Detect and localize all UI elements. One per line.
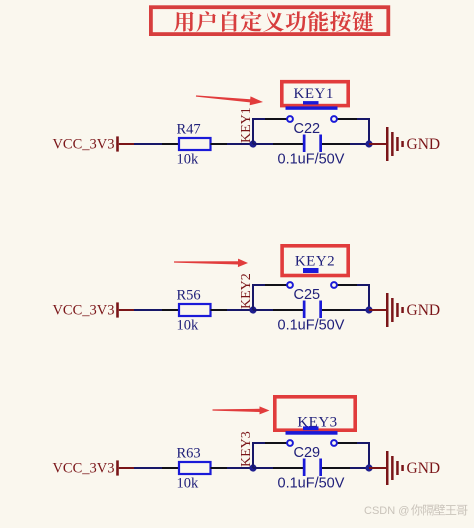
svg-text:GND: GND — [407, 136, 441, 153]
title annotation box — [151, 7, 388, 34]
switch KEY3 pin 1 contact circle — [287, 440, 293, 446]
resistor R47 body — [179, 138, 211, 150]
switch KEY1 pin 2 lead — [337, 118, 358, 120]
switch KEY1 actuator bridge bar — [286, 106, 338, 109]
switch KEY1 pin 1 contact circle — [287, 116, 293, 122]
ground symbol wire stub — [369, 309, 387, 311]
ground symbol wire stub — [369, 143, 387, 145]
capacitor C29 left plate — [303, 459, 306, 477]
switch KEY3 pin 2 contact circle — [331, 440, 337, 446]
svg-text:C29: C29 — [294, 445, 321, 461]
switch KEY2 pin 1 contact circle — [287, 282, 293, 288]
svg-text:VCC_3V3: VCC_3V3 — [52, 136, 114, 152]
annotation arrow 1 — [196, 95, 263, 105]
switch KEY3 plunger cap bar — [303, 426, 319, 430]
resistor R47 pin 1 — [162, 143, 179, 145]
svg-text:KEY1: KEY1 — [239, 107, 254, 143]
svg-text:0.1uF/50V: 0.1uF/50V — [278, 476, 345, 492]
junction dot right node — [365, 306, 372, 313]
svg-text:VCC_3V3: VCC_3V3 — [52, 460, 114, 476]
VCC power stub — [119, 467, 135, 469]
capacitor C25 pin 1 lead — [273, 309, 303, 311]
wire node to capacitor C22 — [253, 143, 274, 145]
svg-text:KEY2: KEY2 — [295, 254, 335, 270]
VCC_3V3 terminal bar — [116, 460, 119, 475]
svg-text:R56: R56 — [177, 288, 201, 304]
switch KEY2 plunger cap bar — [303, 268, 319, 273]
svg-text:0.1uF/50V: 0.1uF/50V — [278, 318, 345, 334]
junction dot left node KEY2 — [249, 306, 256, 313]
svg-text:KEY3: KEY3 — [239, 431, 254, 467]
annotation red box around KEY3 — [275, 397, 355, 430]
svg-text:KEY2: KEY2 — [239, 273, 254, 309]
resistor R63 pin 1 — [162, 467, 179, 469]
wire branch up-left to switch pin 1 — [253, 119, 266, 144]
capacitor C29 pin 1 lead — [273, 467, 303, 469]
wire branch up-left to switch pin 1 — [253, 285, 266, 310]
wire branch up-right from switch pin 2 — [357, 285, 369, 310]
switch KEY1 pin 1 lead — [265, 118, 287, 120]
resistor R63 body — [179, 462, 211, 474]
capacitor C22 pin 1 lead — [273, 143, 303, 145]
VCC_3V3 terminal bar — [116, 302, 119, 317]
resistor R47 pin 2 — [211, 143, 228, 145]
wire VCC to resistor R63 — [134, 467, 163, 469]
junction dot left node KEY3 — [249, 464, 256, 471]
switch KEY3 pin 1 lead — [265, 442, 287, 444]
junction dot right node — [365, 464, 372, 471]
VCC power stub — [119, 143, 135, 145]
wire branch up-left to switch pin 1 — [253, 443, 266, 468]
VCC power stub — [119, 309, 135, 311]
svg-text:R47: R47 — [177, 122, 201, 138]
wire resistor to node KEY2 — [227, 309, 254, 311]
annotation arrow 2 — [174, 259, 248, 268]
junction dot left node KEY1 — [249, 140, 256, 147]
wire node to capacitor C25 — [253, 309, 274, 311]
capacitor C22 pin 2 lead — [322, 143, 351, 145]
svg-text:10k: 10k — [177, 318, 200, 334]
wire VCC to resistor R56 — [134, 309, 163, 311]
wire resistor to node KEY1 — [227, 143, 254, 145]
capacitor C29 right plate — [319, 459, 322, 477]
switch KEY2 pin 2 contact circle — [331, 282, 337, 288]
svg-text:GND: GND — [407, 302, 441, 319]
svg-text:GND: GND — [407, 460, 441, 477]
wire branch up-right from switch pin 2 — [357, 119, 369, 144]
svg-text:0.1uF/50V: 0.1uF/50V — [278, 152, 345, 168]
svg-text:10k: 10k — [177, 152, 200, 168]
junction dot right node — [365, 140, 372, 147]
ground symbol wire stub — [369, 467, 387, 469]
switch KEY2 actuator bridge bar (hidden under box) — [286, 272, 338, 276]
ground symbol bars — [386, 127, 404, 161]
title text 用户自定义功能按键 — [174, 11, 373, 32]
wire capacitor to ground node — [350, 467, 369, 469]
capacitor C25 left plate — [303, 301, 306, 319]
capacitor C25 pin 2 lead — [322, 309, 351, 311]
wire capacitor to ground node — [350, 309, 369, 311]
switch KEY3 actuator bridge bar — [286, 431, 338, 435]
svg-text:VCC_3V3: VCC_3V3 — [52, 302, 114, 318]
svg-text:C25: C25 — [294, 287, 321, 303]
svg-text:R63: R63 — [177, 446, 201, 462]
svg-text:CSDN @: CSDN @ — [364, 505, 409, 517]
capacitor C29 pin 2 lead — [322, 467, 351, 469]
annotation red box around KEY2 — [282, 246, 348, 276]
svg-text:KEY1: KEY1 — [294, 86, 334, 102]
capacitor C22 left plate — [303, 135, 306, 153]
wire VCC to resistor R47 — [134, 143, 163, 145]
capacitor C25 right plate — [319, 301, 322, 319]
switch KEY2 pin 2 lead — [337, 284, 358, 286]
annotation arrow 3 — [213, 406, 270, 414]
wire node to capacitor C29 — [253, 467, 274, 469]
ground symbol bars — [386, 293, 404, 327]
capacitor C22 right plate — [319, 135, 322, 153]
switch KEY3 pin 2 lead — [337, 442, 358, 444]
resistor R63 pin 2 — [211, 467, 228, 469]
svg-text:10k: 10k — [177, 476, 200, 492]
svg-text:KEY3: KEY3 — [297, 414, 337, 430]
resistor R56 pin 1 — [162, 309, 179, 311]
resistor R56 body — [179, 304, 211, 316]
ground symbol bars — [386, 451, 404, 485]
svg-text:C22: C22 — [294, 121, 321, 137]
VCC_3V3 terminal bar — [116, 136, 119, 151]
wire branch up-right from switch pin 2 — [357, 443, 369, 468]
wire capacitor to ground node — [350, 143, 369, 145]
annotation red box around KEY1 — [282, 82, 348, 106]
resistor R56 pin 2 — [211, 309, 228, 311]
switch KEY1 pin 2 contact circle — [331, 116, 337, 122]
switch KEY2 pin 1 lead — [265, 284, 287, 286]
wire resistor to node KEY3 — [227, 467, 254, 469]
switch KEY1 plunger cap bar — [303, 101, 319, 104]
